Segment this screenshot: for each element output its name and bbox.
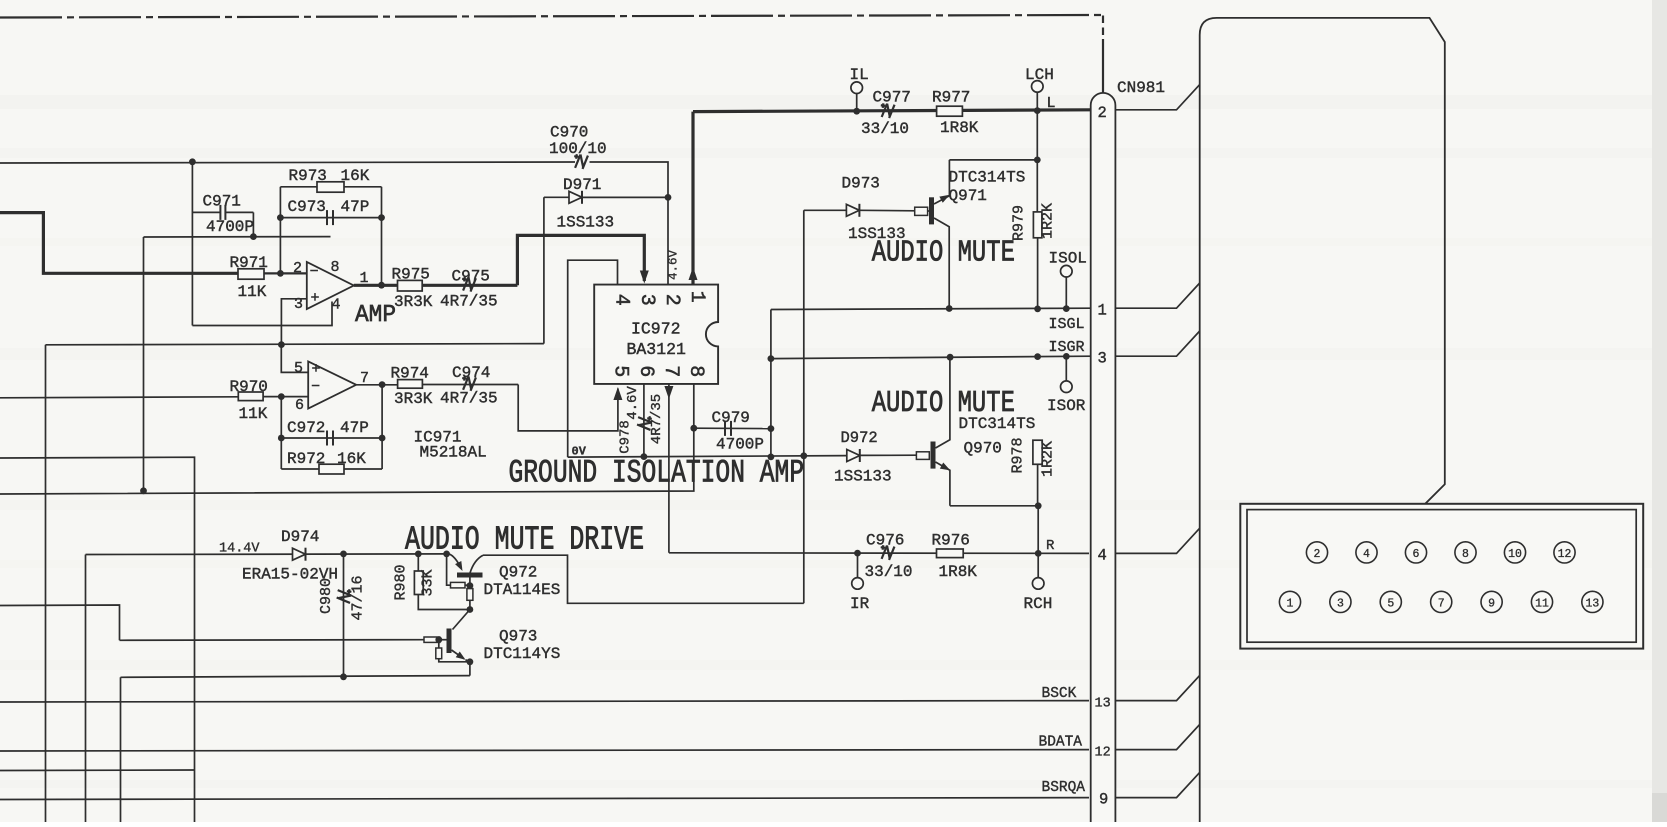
pin circle 8 (1455, 542, 1476, 563)
svg-text:AMP: AMP (355, 303, 396, 330)
label 4R7/35 pin7 (649, 394, 665, 444)
pin circle 12 (1554, 542, 1575, 563)
label GROUND ISOLATION AMP (509, 455, 805, 492)
svg-text:1SS133: 1SS133 (834, 468, 892, 486)
svg-text:8: 8 (1462, 548, 1469, 561)
label R970 (230, 378, 268, 396)
wire: R974 to C974 corner (422, 385, 618, 431)
svg-text:4: 4 (1363, 548, 1370, 561)
wire: R979 riser (1036, 111, 1038, 212)
wire: collector diagonal (453, 610, 470, 630)
label D973 type (848, 225, 906, 243)
wire: AMP2 out to R974 (356, 384, 397, 386)
svg-text:12: 12 (1558, 548, 1572, 561)
svg-text:13: 13 (1585, 598, 1599, 611)
label R976 (932, 532, 970, 550)
label C977 value (861, 120, 909, 138)
wire: pin7 R drop (668, 384, 670, 553)
svg-text:100/10: 100/10 (549, 140, 607, 158)
cable outline (1200, 18, 1445, 822)
label R973 (289, 167, 327, 185)
svg-text:C970: C970 (550, 124, 588, 142)
label D971 type (557, 214, 615, 232)
svg-text:C975: C975 (452, 268, 490, 286)
arrow out of pin1 (689, 267, 698, 280)
svg-text:1R8K: 1R8K (940, 119, 979, 137)
wire: Q973 base line (120, 639, 425, 642)
pin circle 5 bottom (1380, 591, 1401, 612)
node: C973 left (277, 214, 284, 221)
svg-text:D973: D973 (842, 175, 880, 193)
svg-text:1SS133: 1SS133 (557, 214, 615, 232)
wire: mute ground drop (120, 677, 122, 822)
svg-text:33/10: 33/10 (865, 563, 913, 581)
svg-text:7: 7 (1438, 598, 1445, 611)
wire: top input line to C970 (0, 162, 668, 163)
label R977 value (940, 119, 979, 137)
svg-text:4.6V: 4.6V (625, 386, 641, 420)
transistor Q972 (447, 554, 483, 610)
label AMP1 pin1 (360, 270, 369, 287)
wire: C970 down to pin2 (667, 162, 670, 285)
svg-text:R977: R977 (932, 89, 970, 107)
svg-text:D971: D971 (563, 176, 601, 194)
wire: R970 input line (0, 397, 238, 398)
svg-text:2: 2 (1314, 548, 1321, 561)
wire: base line corner (0, 605, 120, 640)
svg-text:D974: D974 (281, 528, 319, 546)
capacitor C978 (637, 415, 653, 430)
wire: ISGR line pin3 (771, 356, 1091, 358)
resistor R971 (238, 269, 264, 279)
node: Q972 base tie (443, 551, 450, 558)
wire: C971 branch vertical (191, 162, 193, 326)
label C973 value (341, 198, 370, 216)
svg-text:47P: 47P (341, 198, 370, 216)
wire: stub rail y770 (0, 769, 195, 772)
wire: CN981 pin13 stub (1115, 675, 1199, 700)
label CN981 pin4 (1098, 547, 1107, 565)
node: C980 tie (340, 551, 347, 558)
svg-text:BSCK: BSCK (1042, 686, 1077, 702)
label CN981 pin2 (1098, 104, 1107, 122)
svg-text:4R7/35: 4R7/35 (649, 394, 665, 444)
capacitor C974 (461, 376, 476, 392)
terminal IL (851, 82, 863, 111)
wire: pin1 bold riser (691, 112, 694, 285)
pin circle 13 bottom (1582, 591, 1603, 612)
wire: D972 cathode to Q970 (860, 454, 917, 456)
label 4.6V pin2 (667, 250, 681, 281)
terminal IR (852, 553, 864, 589)
label Q971 (949, 187, 987, 205)
wire: drive rail bottom (483, 555, 804, 603)
label R977 (932, 89, 970, 107)
label AMP2 pin5 (294, 360, 303, 377)
node: riser to 0V (768, 454, 775, 461)
svg-text:ISGL: ISGL (1049, 316, 1085, 333)
svg-text:BSRQA: BSRQA (1042, 780, 1086, 796)
wire: R979 to ISGL (1037, 238, 1039, 309)
svg-text:13: 13 (1095, 697, 1111, 712)
label C974 value (440, 390, 498, 408)
wire: R978 bottom (1037, 464, 1039, 506)
wire: pin6 C978 drop (643, 384, 645, 457)
node: C978 to 0V (641, 453, 648, 460)
label DTC114YS (484, 645, 561, 663)
svg-text:−: − (311, 379, 320, 396)
capacitor C970 (573, 154, 588, 170)
wire: AMP1 out to R975 (354, 284, 398, 287)
label DTA114ES (484, 581, 561, 599)
label ISOL (1049, 250, 1087, 268)
svg-text:6: 6 (1413, 548, 1420, 561)
svg-text:C972: C972 (287, 419, 325, 437)
diode D973 (846, 204, 859, 217)
node: C972 right (379, 435, 386, 442)
svg-text:4700P: 4700P (206, 218, 254, 236)
label R975 value (394, 293, 433, 311)
label IC972 pin8 (684, 365, 707, 377)
label R980 value (420, 569, 437, 596)
label C980 (318, 578, 335, 614)
label R976 value (939, 563, 978, 581)
svg-text:R973: R973 (289, 167, 327, 185)
svg-text:D972: D972 (841, 429, 878, 447)
wire: 14.4V line (86, 553, 450, 556)
svg-text:C976: C976 (866, 532, 904, 550)
wire: 0V return to left (0, 428, 694, 494)
svg-text:47/16: 47/16 (350, 575, 367, 620)
wire: CN981 pin1 stub (1115, 283, 1199, 308)
wire: CN981 pin9 stub (1115, 772, 1199, 797)
wire: 14.4V riser (85, 555, 87, 823)
wire: pin8 drop (693, 384, 695, 428)
label R net (1046, 538, 1055, 554)
node: collector tie on R979 riser (1034, 157, 1041, 164)
pin circle 7 bottom (1431, 591, 1452, 612)
wire: CN981 pin2 stub (1115, 85, 1199, 110)
svg-text:R976: R976 (932, 532, 970, 550)
label CN981 pin1 (1098, 302, 1107, 320)
node: feedback to output (378, 282, 385, 289)
wire: feedback riser to output (381, 187, 383, 285)
node: pin2 feedback junction (277, 270, 284, 277)
wire: ground ref rail y344 (46, 344, 544, 345)
terminal ISOR (1061, 356, 1073, 392)
label AMP1 pin4 (332, 297, 341, 314)
label AUDIO MUTE upper (872, 236, 1015, 271)
wire: ISGL line pin1 (771, 308, 1091, 309)
label BA3121 (627, 340, 687, 359)
resistor R977 (937, 106, 963, 116)
svg-text:DTA114ES: DTA114ES (484, 581, 561, 599)
transistor Q973 (424, 629, 473, 676)
label AMP2 pin7 (360, 370, 369, 387)
svg-text:R972: R972 (287, 450, 325, 468)
label AMP2 pin6 (295, 397, 304, 414)
resistor R980 (414, 554, 470, 610)
svg-text:C974: C974 (452, 364, 490, 382)
node: C980 ground tie (340, 673, 347, 680)
svg-text:GROUND ISOLATION AMP: GROUND ISOLATION AMP (509, 455, 805, 492)
label C971 value (206, 218, 254, 236)
wire: Q970 emitter run (950, 505, 1038, 507)
pin circle 10 (1504, 542, 1525, 563)
node: C972 left (278, 435, 285, 442)
wire: L line bold (693, 110, 1091, 112)
svg-text:11K: 11K (239, 405, 268, 423)
connector face box (1240, 504, 1643, 649)
label R979 value (1040, 203, 1057, 239)
label C980 value (350, 575, 367, 620)
wire: 0V rail (568, 456, 847, 458)
label RCH (1024, 595, 1053, 613)
svg-text:R975: R975 (392, 266, 430, 284)
wire: bias drop to 0V rail (143, 237, 145, 491)
pin circle 4 (1356, 542, 1377, 563)
resistor R976 (937, 549, 964, 558)
label C974 (452, 364, 490, 382)
svg-text:C978: C978 (618, 420, 634, 454)
label C977 (873, 89, 911, 107)
node: C973 right (378, 214, 385, 221)
label R975 (392, 266, 430, 284)
wire: tie down to R line (1037, 506, 1039, 554)
svg-text:6: 6 (634, 365, 657, 377)
svg-text:Q971: Q971 (949, 187, 987, 205)
label C978 (618, 420, 634, 454)
label LCH (1025, 66, 1054, 84)
label IR (850, 595, 870, 613)
label CN981 pin9 (1099, 791, 1108, 809)
label C971 (203, 193, 241, 211)
svg-text:12: 12 (1095, 746, 1111, 761)
svg-text:1: 1 (1287, 598, 1294, 611)
label CN981 pin3 (1098, 350, 1107, 368)
label R971 value (238, 283, 267, 301)
wire: R971 to AMP1 pin2 (264, 272, 307, 274)
svg-text:16K: 16K (337, 450, 366, 468)
svg-text:9: 9 (1488, 598, 1495, 611)
wire: Q971 collector tie (949, 159, 1037, 161)
label IC972 pin3 (635, 294, 658, 306)
label DTC314TS lower (959, 415, 1036, 433)
node: IL tie (853, 108, 860, 115)
label D972 (841, 429, 878, 447)
capacitor C977 (879, 103, 894, 119)
wire: CN981 pin12 stub (1115, 724, 1199, 749)
label 0V (572, 445, 587, 459)
svg-text:5: 5 (1387, 598, 1394, 611)
svg-text:2: 2 (660, 294, 683, 306)
label C978 voltage (625, 386, 641, 420)
svg-text:16K: 16K (341, 167, 370, 185)
op-amp U1a (AMP) (307, 262, 354, 309)
svg-text:2: 2 (1098, 104, 1107, 122)
wire: mute ground line (121, 676, 470, 678)
label R974 value (394, 390, 433, 408)
svg-text:1R2K: 1R2K (1040, 203, 1057, 239)
resistor R975 (398, 280, 423, 291)
svg-text:+: + (311, 290, 320, 307)
svg-text:ISOL: ISOL (1049, 250, 1087, 268)
node: C971 to bias line (250, 233, 257, 240)
label ISGR (1049, 339, 1085, 356)
wire: R line (669, 552, 1089, 555)
label C979 value (716, 436, 764, 454)
label D973 (842, 175, 880, 193)
wire: BSRQA line (0, 798, 1089, 800)
label R972 (287, 450, 325, 468)
label Q973 (499, 628, 537, 646)
label R972 value (337, 450, 366, 468)
svg-text:R974: R974 (391, 365, 429, 383)
label C973 (288, 198, 326, 216)
wire: pin5 stub (281, 345, 308, 373)
label AUDIO MUTE DRIVE (405, 521, 644, 558)
svg-text:AUDIO MUTE: AUDIO MUTE (872, 236, 1015, 271)
svg-text:11K: 11K (238, 283, 267, 301)
wire: feedback riser pin2 (279, 187, 281, 274)
label IC972 pin6 (634, 365, 657, 377)
IC U972 BA3121 outline (594, 285, 718, 384)
label D974 type (242, 566, 338, 584)
wire: bold L path (422, 235, 644, 285)
svg-text:Q973: Q973 (499, 628, 537, 646)
label IC972 pin7 (659, 365, 682, 377)
label Q972 (499, 564, 537, 582)
svg-text:Q970: Q970 (964, 440, 1002, 458)
capacitor C979 (694, 421, 771, 436)
label D971 (563, 176, 601, 194)
svg-text:4: 4 (332, 297, 341, 314)
label BSRQA (1042, 780, 1086, 796)
resistor R974 (398, 380, 423, 389)
node: D971/C970/pin2 tie (665, 194, 672, 201)
wire: AMP1 pin3 stub (281, 299, 306, 345)
node: Q972/Q973 collector tie (467, 606, 474, 613)
label C970 value (549, 140, 607, 158)
label D974 (281, 528, 319, 546)
label DTC314TS upper (949, 169, 1026, 187)
wire: CN981 pin3 stub (1115, 331, 1199, 356)
svg-text:ISOR: ISOR (1047, 397, 1086, 415)
node: junction top line / C971 branch (189, 158, 196, 165)
capacitor C973 (280, 210, 381, 225)
node: Q971 emitter on ISGL (946, 305, 953, 312)
svg-text:2: 2 (293, 260, 302, 277)
label IC972 pin4 (610, 294, 633, 306)
op-amp U1b (308, 361, 356, 409)
pin circle 2 (1306, 542, 1327, 563)
wire: AMP2 fb riser (280, 397, 282, 469)
svg-text:1R2K: 1R2K (1040, 441, 1057, 477)
wire: D971 cathode line (582, 196, 668, 198)
label CN981 pin12 (1095, 746, 1111, 761)
pin circle 3 bottom (1330, 591, 1351, 612)
label C976 (866, 532, 904, 550)
pin circle 11 bottom (1531, 591, 1552, 612)
svg-text:IR: IR (850, 595, 870, 613)
label AMP1 pin3 (294, 296, 303, 313)
svg-text:3R3K: 3R3K (394, 390, 433, 408)
svg-text:10: 10 (1508, 548, 1522, 561)
label C976 value (865, 563, 913, 581)
wire: AMP2 fb right riser (381, 385, 383, 469)
label IC971 (414, 429, 462, 447)
svg-text:R970: R970 (230, 378, 268, 396)
capacitor C972 (281, 431, 382, 446)
svg-text:C971: C971 (203, 193, 241, 211)
svg-text:BDATA: BDATA (1039, 735, 1083, 751)
node: AMP2 out junction (379, 381, 386, 388)
label AUDIO MUTE lower (872, 386, 1015, 421)
svg-text:3: 3 (1098, 350, 1107, 368)
svg-text:3: 3 (1337, 598, 1344, 611)
transistor Q970 (916, 357, 952, 506)
wire: R970 to AMP2 pin6 (263, 396, 308, 398)
wire: bias line y237 (144, 236, 331, 238)
svg-text:11: 11 (1535, 598, 1549, 611)
pin circle 6 (1405, 542, 1426, 563)
label D972 type (834, 468, 892, 486)
label ISOR (1047, 397, 1086, 415)
svg-text:4R7/35: 4R7/35 (440, 293, 498, 311)
svg-text:4: 4 (1098, 547, 1107, 565)
label C975 (452, 268, 490, 286)
transistor Q971 (915, 160, 952, 309)
wire: D971 anode line (544, 196, 569, 198)
arrow into IC972 pin5 (613, 387, 622, 400)
svg-text:33K: 33K (420, 569, 437, 596)
diode D972 (847, 449, 860, 462)
wire: left return rail y457 (0, 457, 195, 822)
node: LCH tie (1034, 107, 1041, 114)
resistor R979 (1033, 212, 1042, 238)
svg-text:R980: R980 (393, 564, 410, 600)
node: ISOR on ISGR (1063, 353, 1070, 360)
label AMP1 pin2 (293, 260, 302, 277)
svg-text:RCH: RCH (1024, 595, 1053, 613)
node: R979 on ISGL (1034, 306, 1041, 313)
wire: AMP1 pin4 return (192, 302, 332, 326)
label CN981 (1117, 79, 1165, 97)
label Q970 (964, 440, 1002, 458)
wire: D973 anode line (804, 209, 847, 211)
node: C979 right on riser (768, 425, 775, 432)
node: drive rail on 0V (800, 452, 807, 459)
svg-text:1R8K: 1R8K (939, 563, 978, 581)
svg-text:3R3K: 3R3K (394, 293, 433, 311)
label C975 value (440, 293, 498, 311)
svg-text:4.6V: 4.6V (667, 250, 681, 281)
svg-text:4: 4 (610, 294, 633, 306)
svg-text:BA3121: BA3121 (627, 340, 687, 359)
node: bias drop on 0V rail (140, 487, 147, 494)
arrow out of pin7 (664, 386, 673, 399)
node: pin6 feedback junction (278, 393, 285, 400)
node: IR tie (854, 550, 861, 557)
label AMP1 pin8 (331, 259, 340, 276)
label CN981 pin13 (1095, 697, 1111, 712)
terminal LCH (1032, 81, 1044, 111)
svg-text:−: − (310, 264, 319, 281)
wire: D973 cathode to Q971 (859, 209, 914, 212)
label L net (1047, 95, 1056, 112)
svg-text:47P: 47P (340, 419, 369, 437)
arrow into IC972 pin3 (640, 271, 649, 284)
